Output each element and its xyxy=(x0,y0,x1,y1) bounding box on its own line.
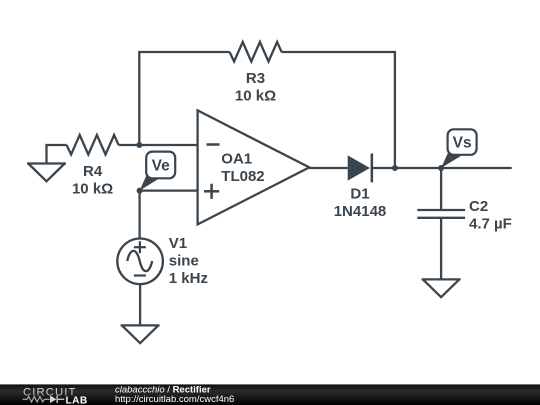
svg-text:Ve: Ve xyxy=(152,158,170,175)
node dot (Ve) xyxy=(137,188,143,194)
svg-text:TL082: TL082 xyxy=(221,168,264,185)
voltage source V1 circle xyxy=(117,238,163,284)
V1 sine wave xyxy=(127,251,152,271)
footer bar xyxy=(0,384,540,405)
V1 plus mark xyxy=(134,246,146,248)
svg-text:V1: V1 xyxy=(169,235,187,252)
op-amp plus symbol xyxy=(204,190,219,193)
op-amp OA1 triangle xyxy=(198,110,310,224)
wire feedback left (junction up and right to R3) xyxy=(139,52,229,145)
wire R4 right to op-amp minus input xyxy=(119,144,198,146)
footer logo schematic xyxy=(23,397,50,403)
resistor R4 xyxy=(67,135,119,155)
wire feedback right (R3 to output node) xyxy=(282,52,395,168)
V1 minus mark xyxy=(134,274,146,276)
svg-text:sine: sine xyxy=(169,253,199,270)
wire diode to right end xyxy=(371,167,512,169)
svg-text:http://circuitlab.com/cwcf4n6: http://circuitlab.com/cwcf4n6 xyxy=(115,394,234,405)
svg-text:D1: D1 xyxy=(350,186,369,203)
node dot (R4 / feedback junction) xyxy=(136,142,142,148)
svg-text:10 kΩ: 10 kΩ xyxy=(72,181,113,198)
ground (under C2) xyxy=(422,278,461,280)
svg-text:R3: R3 xyxy=(246,70,265,87)
svg-text:1N4148: 1N4148 xyxy=(334,203,387,220)
op-amp minus symbol xyxy=(207,143,220,146)
svg-text:LAB: LAB xyxy=(66,396,88,405)
svg-text:C2: C2 xyxy=(469,198,488,215)
node flag Ve xyxy=(140,152,176,191)
resistor R3 xyxy=(230,42,282,62)
wire C2 to ground xyxy=(440,218,442,280)
wire op-amp output to diode xyxy=(309,167,347,169)
ground (left, at R4) xyxy=(47,145,67,164)
capacitor C2 plates xyxy=(417,209,465,211)
wire Vs node down to C2 xyxy=(440,168,442,210)
node dot (diode cathode junction) xyxy=(392,165,398,171)
diode D1 xyxy=(348,155,370,180)
node dot (Vs) xyxy=(438,165,444,171)
svg-text:10 kΩ: 10 kΩ xyxy=(235,88,276,105)
svg-text:R4: R4 xyxy=(83,163,103,180)
wire V1 to ground xyxy=(139,284,141,325)
wire Ve node down to V1 xyxy=(138,191,140,239)
svg-text:1 kHz: 1 kHz xyxy=(169,270,208,287)
svg-text:4.7 µF: 4.7 µF xyxy=(469,215,512,232)
svg-text:Vs: Vs xyxy=(453,135,472,152)
svg-text:OA1: OA1 xyxy=(221,151,252,168)
ground (under V1) xyxy=(121,324,160,326)
wire plus input xyxy=(140,189,198,191)
node flag Vs xyxy=(441,129,477,168)
